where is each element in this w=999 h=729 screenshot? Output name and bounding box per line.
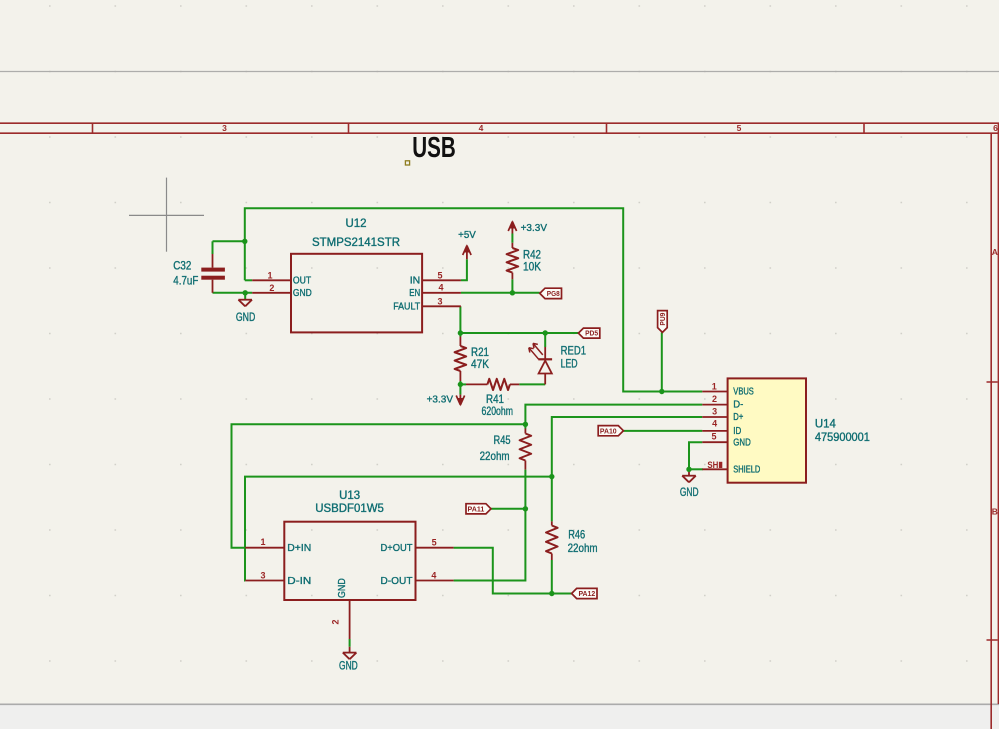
svg-text:OUT: OUT (293, 275, 312, 287)
svg-text:2: 2 (269, 283, 274, 293)
svg-text:PU9: PU9 (658, 313, 667, 326)
svg-text:FAULT: FAULT (393, 301, 420, 313)
svg-text:R45: R45 (494, 434, 511, 447)
svg-text:D-: D- (733, 400, 743, 411)
svg-text:EN: EN (409, 287, 420, 299)
svg-text:B: B (992, 507, 998, 517)
svg-text:4: 4 (438, 283, 443, 293)
svg-text:GND: GND (339, 660, 358, 672)
svg-text:5: 5 (711, 431, 716, 441)
svg-text:PA10: PA10 (600, 426, 617, 435)
svg-text:D+IN: D+IN (287, 542, 311, 554)
svg-text:3: 3 (222, 123, 227, 133)
svg-text:1: 1 (260, 537, 265, 547)
svg-text:C32: C32 (173, 260, 191, 273)
svg-text:4: 4 (712, 419, 717, 429)
svg-text:1: 1 (712, 382, 717, 392)
svg-text:620ohm: 620ohm (482, 405, 514, 418)
svg-text:4: 4 (479, 123, 484, 133)
svg-text:GND: GND (236, 312, 255, 324)
svg-text:VBUS: VBUS (733, 387, 754, 398)
svg-text:A: A (992, 247, 998, 257)
svg-text:4.7uF: 4.7uF (173, 275, 198, 288)
svg-text:+3.3V: +3.3V (521, 222, 547, 234)
svg-text:22ohm: 22ohm (568, 542, 598, 555)
svg-text:GND: GND (336, 578, 348, 598)
svg-text:+5V: +5V (458, 229, 476, 241)
svg-text:3: 3 (437, 296, 442, 306)
svg-text:6: 6 (993, 123, 998, 133)
svg-text:D+OUT: D+OUT (381, 542, 414, 554)
svg-text:22ohm: 22ohm (480, 450, 510, 463)
svg-text:USBDF01W5: USBDF01W5 (315, 502, 384, 515)
svg-text:4: 4 (431, 570, 436, 580)
svg-text:47K: 47K (471, 358, 489, 371)
svg-text:U13: U13 (339, 489, 360, 502)
svg-text:PA12: PA12 (578, 589, 595, 598)
svg-text:PG8: PG8 (547, 289, 560, 298)
svg-text:D-IN: D-IN (287, 575, 311, 587)
svg-text:LED: LED (561, 358, 578, 371)
svg-text:GND: GND (680, 487, 699, 499)
svg-text:2: 2 (330, 619, 340, 624)
svg-text:PA11: PA11 (468, 504, 485, 513)
svg-text:3: 3 (712, 406, 717, 416)
svg-text:R46: R46 (568, 529, 585, 542)
svg-text:U12: U12 (346, 217, 367, 230)
svg-text:+3.3V: +3.3V (427, 393, 453, 405)
svg-text:1: 1 (267, 271, 272, 281)
svg-text:475900001: 475900001 (815, 431, 870, 444)
svg-text:U14: U14 (815, 418, 837, 431)
svg-text:RED1: RED1 (561, 345, 586, 358)
svg-text:5: 5 (437, 271, 442, 281)
svg-text:GND: GND (293, 287, 312, 299)
svg-text:D+: D+ (733, 412, 743, 423)
svg-text:10K: 10K (523, 261, 541, 274)
svg-text:SHIELD: SHIELD (733, 464, 760, 475)
svg-text:PD5: PD5 (585, 329, 598, 338)
svg-text:IN: IN (410, 275, 421, 287)
svg-text:5: 5 (737, 123, 742, 133)
svg-text:2: 2 (712, 394, 717, 404)
svg-text:D-OUT: D-OUT (381, 575, 414, 587)
svg-text:3: 3 (260, 571, 265, 581)
svg-text:GND: GND (733, 437, 751, 448)
svg-text:USB: USB (412, 132, 456, 164)
svg-text:SH: SH (707, 460, 718, 470)
svg-text:5: 5 (432, 538, 437, 548)
svg-text:STMPS2141STR: STMPS2141STR (312, 236, 400, 249)
svg-text:ID: ID (733, 426, 741, 437)
